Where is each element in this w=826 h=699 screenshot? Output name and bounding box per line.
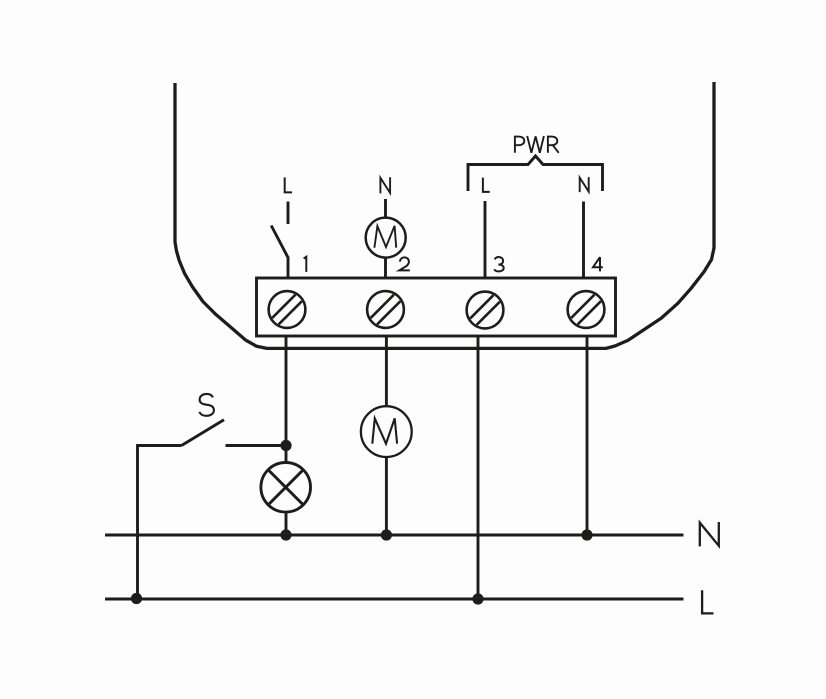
wire blade to terminal 1 [287,257,290,279]
switch S blade [182,420,225,446]
screw terminal 1 [269,291,306,328]
N bus line [105,534,684,537]
label M upper motor [374,226,396,248]
junction node: switch to lamp [280,440,291,451]
switch blade above terminal 1 [271,226,288,258]
wire L to terminal 3 [484,201,487,278]
screw terminal 2 [367,291,404,328]
wire N to terminal 4 [582,202,585,279]
label PWR letter P [515,137,524,153]
junction node: lamp on N bus [280,529,291,540]
junction node: switch on L bus [131,593,142,604]
pin number 4 [593,257,603,271]
wire motor to N bus [385,457,388,535]
enclosure outline [175,82,714,348]
screw terminal 4 [568,291,605,328]
wire motor to terminal 2 [384,258,387,278]
L bus line [105,598,684,601]
label N terminal 2 [380,177,390,193]
screw terminal 3 [467,292,504,329]
label M lower motor [372,418,397,443]
label S switch [199,394,214,416]
PWR bracket [468,156,603,191]
label L terminal 1 [285,177,292,192]
label L terminal 3 [483,178,490,192]
wire lamp to N bus [285,512,288,535]
wire stub under L [287,202,290,225]
pin number 3 [494,257,504,271]
label PWR letter W [527,136,544,153]
label N terminal 4 [580,177,589,192]
junction node: terminal 3 on L bus [472,593,483,604]
motor M lower [361,406,412,457]
pin number 1 [304,257,307,272]
label L bus [702,590,713,613]
junction node: terminal 4 on N bus [581,529,592,540]
label N bus [700,522,719,546]
motor M upper [366,218,406,258]
wire stub under N (terminal 2) [384,199,387,218]
wire terminal 4 down to N bus [586,336,589,535]
lamp X1 [261,463,311,513]
wire terminal 2 down [385,336,388,406]
wire switch to junction [226,444,287,447]
switch S left wire [138,446,182,599]
wire terminal 1 down [285,336,288,463]
junction node: motor on N bus [381,529,392,540]
label PWR letter R [548,137,559,153]
terminal block [257,278,616,336]
pin number 2 [399,257,410,270]
wire terminal 3 down to L bus [477,336,480,599]
